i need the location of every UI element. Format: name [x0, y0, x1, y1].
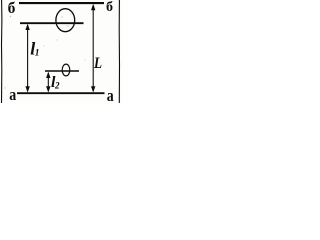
wire top rail b-b	[19, 2, 104, 4]
galvanometer G1 big ellipse	[56, 9, 75, 32]
node label a bottom-right	[107, 87, 114, 106]
dimension line L	[91, 4, 95, 93]
svg-text:б: б	[8, 0, 16, 17]
wire bottom rail a-a	[17, 92, 105, 94]
wire right vertical rail	[118, 0, 120, 103]
label L	[93, 55, 102, 72]
dimension line l1	[25, 24, 29, 93]
wire upper jumper through galvanometer	[20, 22, 84, 24]
svg-text:1: 1	[35, 49, 40, 59]
scan speckles	[4, 14, 85, 89]
node label a bottom-left	[9, 86, 16, 105]
wire left vertical rail	[1, 0, 3, 103]
svg-text:б: б	[106, 0, 113, 15]
svg-text:а: а	[9, 86, 16, 103]
lamp E1 small ellipse	[62, 64, 70, 76]
svg-text:а: а	[107, 87, 114, 103]
svg-text:L: L	[93, 55, 102, 72]
wire lower jumper through lamp	[45, 70, 79, 72]
svg-text:2: 2	[54, 81, 60, 91]
dimension line l2	[46, 72, 50, 93]
